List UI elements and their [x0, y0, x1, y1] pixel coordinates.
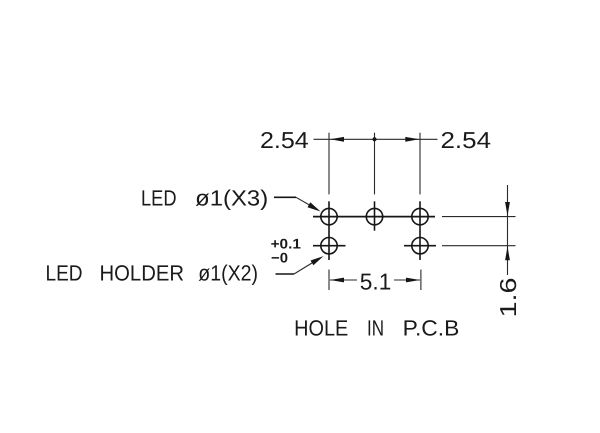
wire extension line left column — [328, 133, 330, 195]
svg-text:−0: −0 — [271, 249, 288, 265]
node LED holder hole H5 — [404, 238, 436, 254]
wire 5.1 dimension line right segment — [394, 279, 420, 281]
svg-text:1.6: 1.6 — [495, 278, 521, 318]
svg-text:HOLE: HOLE — [294, 316, 348, 341]
label LED HOLDER holes — [46, 261, 259, 286]
wire leader HOLDER horizontal — [276, 273, 295, 275]
wire extension line center column — [374, 133, 376, 195]
node top-dim center dot — [373, 137, 377, 141]
svg-text:LED: LED — [46, 261, 83, 286]
arrow 5.1 right — [406, 278, 420, 283]
wire 1.6 extension bottom — [442, 245, 516, 247]
svg-text:ø1(X2): ø1(X2) — [198, 261, 258, 286]
arrow top-dim right — [405, 137, 419, 142]
arrow 5.1 left — [330, 278, 344, 283]
wire 5.1 dimension line left segment — [330, 279, 357, 281]
wire 1.6 extension top — [442, 216, 516, 218]
wire top-row hole centerline — [313, 216, 435, 218]
svg-text:2.54: 2.54 — [441, 127, 492, 153]
svg-text:HOLDER: HOLDER — [100, 261, 185, 286]
label LED holes — [141, 185, 268, 210]
label HOLE IN P.C.B — [294, 316, 459, 341]
arrow top-dim left — [330, 137, 344, 142]
wire 5.1 extension left — [328, 270, 330, 291]
node LED holder hole H4 — [313, 238, 346, 254]
wire leader LED horizontal — [274, 196, 296, 198]
svg-text:P.C.B: P.C.B — [403, 316, 460, 341]
arrow leader HOLDER — [311, 256, 324, 265]
svg-text:LED: LED — [141, 185, 177, 210]
svg-text:5.1: 5.1 — [360, 269, 392, 295]
node LED hole H3 — [412, 201, 428, 260]
node LED hole H2 — [366, 201, 382, 230]
arrow leader LED — [308, 202, 321, 211]
wire leader LED diagonal — [296, 197, 313, 207]
node LED hole H1 — [321, 201, 337, 260]
svg-text:ø1(X3): ø1(X3) — [195, 185, 268, 210]
wire leader HOLDER diagonal — [294, 262, 313, 274]
svg-text:2.54: 2.54 — [260, 127, 309, 153]
wire extension line right column — [419, 133, 421, 195]
wire 5.1 extension right — [420, 270, 422, 291]
wire top dimension line — [314, 138, 438, 140]
arrow 1.6 down — [505, 202, 510, 216]
wire 1.6 dimension line — [507, 185, 509, 275]
svg-text:IN: IN — [367, 316, 384, 341]
arrow 1.6 up — [505, 246, 510, 260]
